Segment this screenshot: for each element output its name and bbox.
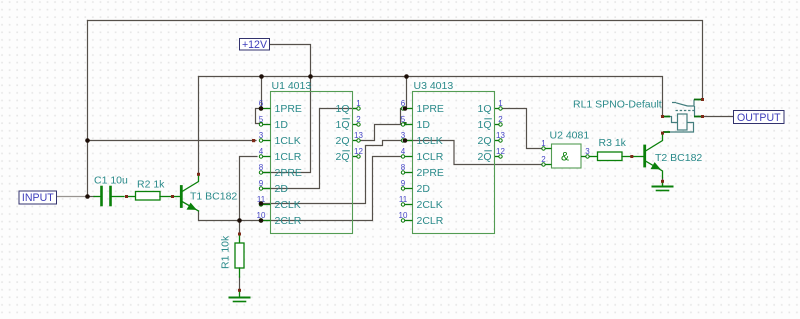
wire: T1 collector riser [198, 77, 200, 175]
node: U1 pin 11 junction [259, 201, 264, 206]
resistor R2 [136, 192, 181, 201]
U1 pin 1 1Q [335, 99, 361, 115]
U2 pin 3 output [581, 147, 590, 158]
svg-text:+12V: +12V [242, 39, 268, 51]
U2 pin 1 [541, 139, 551, 150]
U2 pin 2 [541, 155, 551, 166]
svg-text:5: 5 [259, 115, 264, 124]
wire: T1 emitter rail to R1 junction [199, 211, 240, 221]
svg-text:1CLK: 1CLK [275, 135, 301, 147]
svg-text:1Q: 1Q [335, 119, 349, 131]
wire: U1 2D to U1 1Q internal route [263, 109, 357, 189]
wire: 2CLR line through U1 up to U3 1CLR [240, 157, 402, 221]
ground below R1 [230, 290, 250, 302]
wire end pin marks [125, 98, 704, 292]
svg-text:R3 1k: R3 1k [599, 137, 627, 149]
svg-text:3: 3 [259, 131, 264, 140]
svg-text:1: 1 [541, 139, 546, 148]
wire: R1 top connection [239, 221, 241, 235]
svg-text:2CLK: 2CLK [417, 199, 443, 211]
wire: INPUT box to junction [57, 196, 88, 198]
svg-text:2D: 2D [275, 183, 289, 195]
U3 pin 2 1Qbar [477, 115, 503, 131]
component value labels [94, 99, 702, 270]
svg-text:1CLR: 1CLR [417, 151, 444, 163]
transistor T2 collector riser to relay coil [662, 132, 664, 135]
svg-text:8: 8 [259, 163, 264, 172]
wire: U3 1Q to U2 input 1 [503, 109, 542, 149]
U3 pin 5 1D [401, 115, 431, 131]
node: input/top-rail junction [85, 194, 90, 199]
svg-text:13: 13 [496, 131, 505, 140]
ground below T2 [653, 183, 673, 191]
wire: U1 2CLK to U3 1CLK step route [263, 141, 404, 204]
U1 pin 10 2CLR [257, 211, 302, 227]
relay coil left feed [670, 117, 678, 123]
svg-text:OUTPUT: OUTPUT [737, 112, 781, 124]
svg-text:U1 4013: U1 4013 [272, 80, 312, 92]
relay switch fixed contact to top pin [688, 100, 695, 107]
svg-text:1D: 1D [417, 119, 431, 131]
svg-text:1CLR: 1CLR [275, 151, 302, 163]
svg-text:2CLK: 2CLK [275, 199, 301, 211]
U3 pin 8 2PRE [401, 163, 444, 179]
node: U1 pin 10 junction [259, 218, 264, 223]
svg-text:1Q: 1Q [477, 103, 491, 115]
U1 pin 5 1D [259, 115, 289, 131]
resistor R1 [235, 234, 244, 277]
U1 pin 2 1Qbar [335, 115, 361, 131]
wire: +12V label feed down to rail and on to U1 2PRE [263, 45, 311, 173]
wire: U1 1CLR riser from emitter rail [240, 157, 258, 221]
svg-text:10: 10 [399, 211, 408, 220]
U3 pin 13 2Q [477, 131, 505, 147]
svg-text:2Q: 2Q [477, 151, 491, 163]
wire: 1CLK line from left drop to U1 pin 3 [88, 140, 257, 142]
wire: rail drop to U1 pin 6 [261, 77, 263, 107]
wire: rail drop to U3 pin 6 [406, 77, 408, 107]
wire: +12V rail y=76 from T1 collector to relay coil pin [199, 77, 663, 117]
svg-text:12: 12 [496, 147, 505, 156]
svg-text:U3 4013: U3 4013 [414, 80, 454, 92]
svg-text:1PRE: 1PRE [417, 103, 444, 115]
svg-text:INPUT: INPUT [22, 192, 54, 204]
node: +12V entry on rail [308, 74, 313, 79]
svg-text:12: 12 [354, 147, 363, 156]
relay RL1 SPNO [663, 100, 702, 133]
relay contact to output pin [694, 106, 696, 117]
U3 pin 4 1CLR [401, 147, 444, 163]
node: 1CLK branch on left drop [85, 138, 90, 143]
wire: U1 1PRE to 1D bracket [256, 109, 262, 124]
svg-text:1: 1 [498, 99, 503, 108]
node: rail to U1 1PRE [259, 74, 264, 79]
U1 pin 8 2PRE [259, 163, 302, 179]
svg-text:U2 4081: U2 4081 [550, 130, 590, 142]
wire: T2 emitter to ground [662, 178, 664, 186]
U3 pin 9 2D [401, 179, 431, 195]
svg-text:1: 1 [356, 99, 361, 108]
U3 pin 12 2Qbar [477, 147, 505, 163]
resistor R3 [590, 152, 644, 161]
IC U3 4013 [399, 80, 506, 234]
node: emitter rail / R1 / 1CLR junction [237, 218, 242, 223]
wire: junction to C1 left lead [88, 196, 95, 198]
wire: top rail from node A down-right to relay switch [88, 21, 703, 100]
node: U1 pin 6 junction [259, 106, 264, 111]
transistor Q T2 [645, 135, 663, 179]
capacitor C1 [94, 187, 136, 205]
svg-text:&: & [561, 150, 569, 164]
svg-text:2: 2 [356, 115, 361, 124]
svg-text:2PRE: 2PRE [417, 167, 444, 179]
svg-text:8: 8 [401, 163, 406, 172]
svg-text:2Q: 2Q [335, 151, 349, 163]
U3 pin 3 1CLK [401, 131, 443, 147]
relay switch lever [672, 103, 688, 107]
relay actuator dashed link [676, 110, 695, 112]
U1 pin 12 2Qbar [335, 147, 363, 163]
transistor Q T1 [181, 176, 198, 211]
U1 pin 13 2Q [335, 131, 363, 147]
svg-text:5: 5 [401, 115, 406, 124]
svg-text:4: 4 [401, 147, 406, 156]
svg-text:4: 4 [259, 147, 264, 156]
U1 pin 6 1PRE [259, 99, 302, 115]
U3 pin 6 1PRE [401, 99, 444, 115]
junction dots [85, 74, 409, 223]
U1 pin 9 2D [259, 179, 289, 195]
svg-text:11: 11 [399, 195, 408, 204]
U1 pin 4 1CLR [259, 147, 302, 163]
relay pin stubs [663, 100, 702, 133]
svg-text:T1 BC182: T1 BC182 [190, 191, 237, 203]
U1 pin 11 2CLK [257, 195, 301, 211]
port INPUT [19, 191, 57, 204]
svg-text:2CLR: 2CLR [275, 215, 302, 227]
svg-text:RL1 SPNO-Default: RL1 SPNO-Default [573, 99, 662, 111]
svg-text:2Q: 2Q [477, 135, 491, 147]
wire: relay contact to OUTPUT box [703, 116, 734, 118]
svg-text:1Q: 1Q [335, 103, 349, 115]
AND gate U2 4081 [541, 130, 590, 169]
svg-text:1D: 1D [275, 119, 289, 131]
U1 pin 3 1CLK [259, 131, 301, 147]
port OUTPUT [734, 111, 785, 124]
svg-text:2D: 2D [417, 183, 431, 195]
relay coil right feed under coil [670, 123, 694, 133]
node: U3 pin 6 junction [403, 106, 408, 111]
svg-text:R1 10k: R1 10k [220, 235, 232, 269]
svg-text:1Q: 1Q [477, 119, 491, 131]
IC U1 4013 [257, 80, 364, 234]
svg-text:2PRE: 2PRE [275, 167, 302, 179]
svg-text:3: 3 [585, 147, 590, 156]
svg-text:2: 2 [541, 155, 546, 164]
svg-text:2CLR: 2CLR [417, 215, 444, 227]
wire: left vertical drop x=87 to input line [87, 21, 89, 197]
svg-text:1PRE: 1PRE [275, 103, 302, 115]
relay coil box [678, 114, 688, 130]
svg-text:1CLK: 1CLK [417, 135, 443, 147]
svg-text:9: 9 [401, 179, 406, 188]
U3 pin 1 1Q [477, 99, 503, 115]
wire: U1 2Q to U3 1D [360, 125, 401, 141]
svg-text:R2 1k: R2 1k [137, 179, 165, 191]
U3 pin 10 2CLR [399, 211, 444, 227]
wire: U3 1CLK internal route to U2 input 2 [407, 141, 542, 165]
svg-text:T2 BC182: T2 BC182 [655, 152, 702, 164]
power label +12V [240, 39, 270, 51]
svg-text:2: 2 [498, 115, 503, 124]
svg-text:13: 13 [354, 131, 363, 140]
U3 pin 11 2CLK [399, 195, 443, 211]
svg-text:9: 9 [259, 179, 264, 188]
node: rail to U3 1PRE [404, 74, 409, 79]
svg-text:C1 10u: C1 10u [94, 175, 128, 187]
node: U3 pin 3 junction [403, 138, 408, 143]
wire: R1 bottom to ground [239, 277, 241, 290]
svg-text:2Q: 2Q [335, 135, 349, 147]
wire: U3 1PRE to 1D bracket [401, 109, 407, 124]
